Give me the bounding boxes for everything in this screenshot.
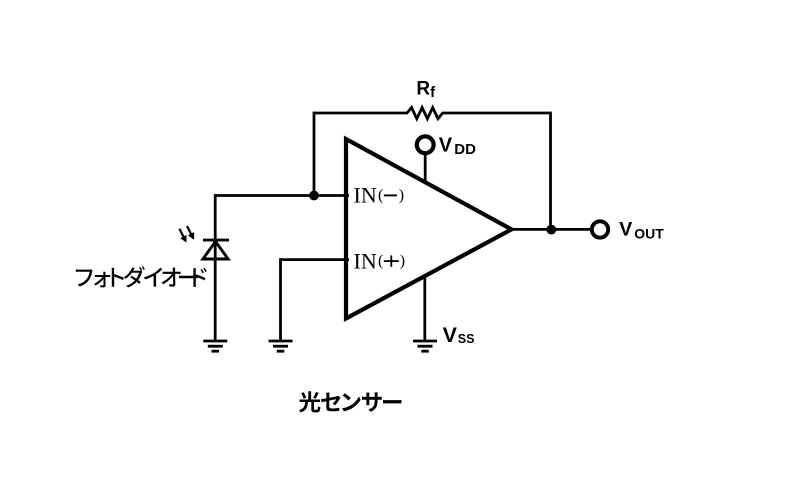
label photodiode フォトダイオード [76, 266, 207, 287]
label 光センサー [299, 391, 401, 412]
wire VDD to op-amp [424, 153, 427, 182]
pin label IN(+) [354, 248, 406, 273]
light arrow upper-right [187, 226, 194, 240]
output terminal VOUT circle [592, 221, 608, 237]
wire feedback right vertical [549, 112, 552, 230]
svg-text:IN: IN [354, 248, 377, 273]
node junction dot at output [546, 225, 556, 235]
svg-text:): ) [400, 253, 405, 270]
wire noninverting input vertical [279, 258, 282, 340]
svg-text:SS: SS [458, 332, 475, 346]
wire inverting input horizontal [215, 194, 349, 197]
wire VSS from op-amp [423, 276, 426, 341]
wire noninverting input horizontal [281, 258, 350, 261]
svg-text:IN: IN [354, 182, 377, 207]
svg-text:(: ( [378, 187, 383, 204]
svg-text:V: V [443, 323, 458, 347]
wire output [510, 228, 591, 231]
resistor Rf [407, 108, 443, 119]
pin label IN(-) [354, 182, 405, 207]
wire feedback top-left horizontal [314, 112, 408, 115]
op-amp U1 triangle [346, 139, 512, 319]
svg-text:V: V [619, 219, 632, 241]
power terminal VDD circle [417, 136, 434, 153]
svg-text:Rf: Rf [416, 79, 436, 101]
light arrow lower-left [179, 229, 186, 243]
photodiode D1 anode triangle [203, 242, 228, 260]
svg-text:OUT: OUT [634, 225, 664, 241]
svg-text:DD: DD [454, 141, 476, 158]
ground VSS [413, 341, 437, 351]
wire photodiode vertical [214, 194, 217, 340]
wire feedback top-right horizontal [442, 112, 551, 115]
ground photodiode [203, 341, 227, 351]
svg-text:V: V [439, 134, 453, 156]
wire feedback left vertical [313, 112, 316, 196]
svg-text:(: ( [378, 253, 383, 270]
ground noninverting input [269, 341, 293, 351]
node junction dot at inverting input [309, 191, 319, 201]
photodiode D1 cathode bar [203, 239, 229, 242]
svg-text:): ) [399, 187, 404, 204]
